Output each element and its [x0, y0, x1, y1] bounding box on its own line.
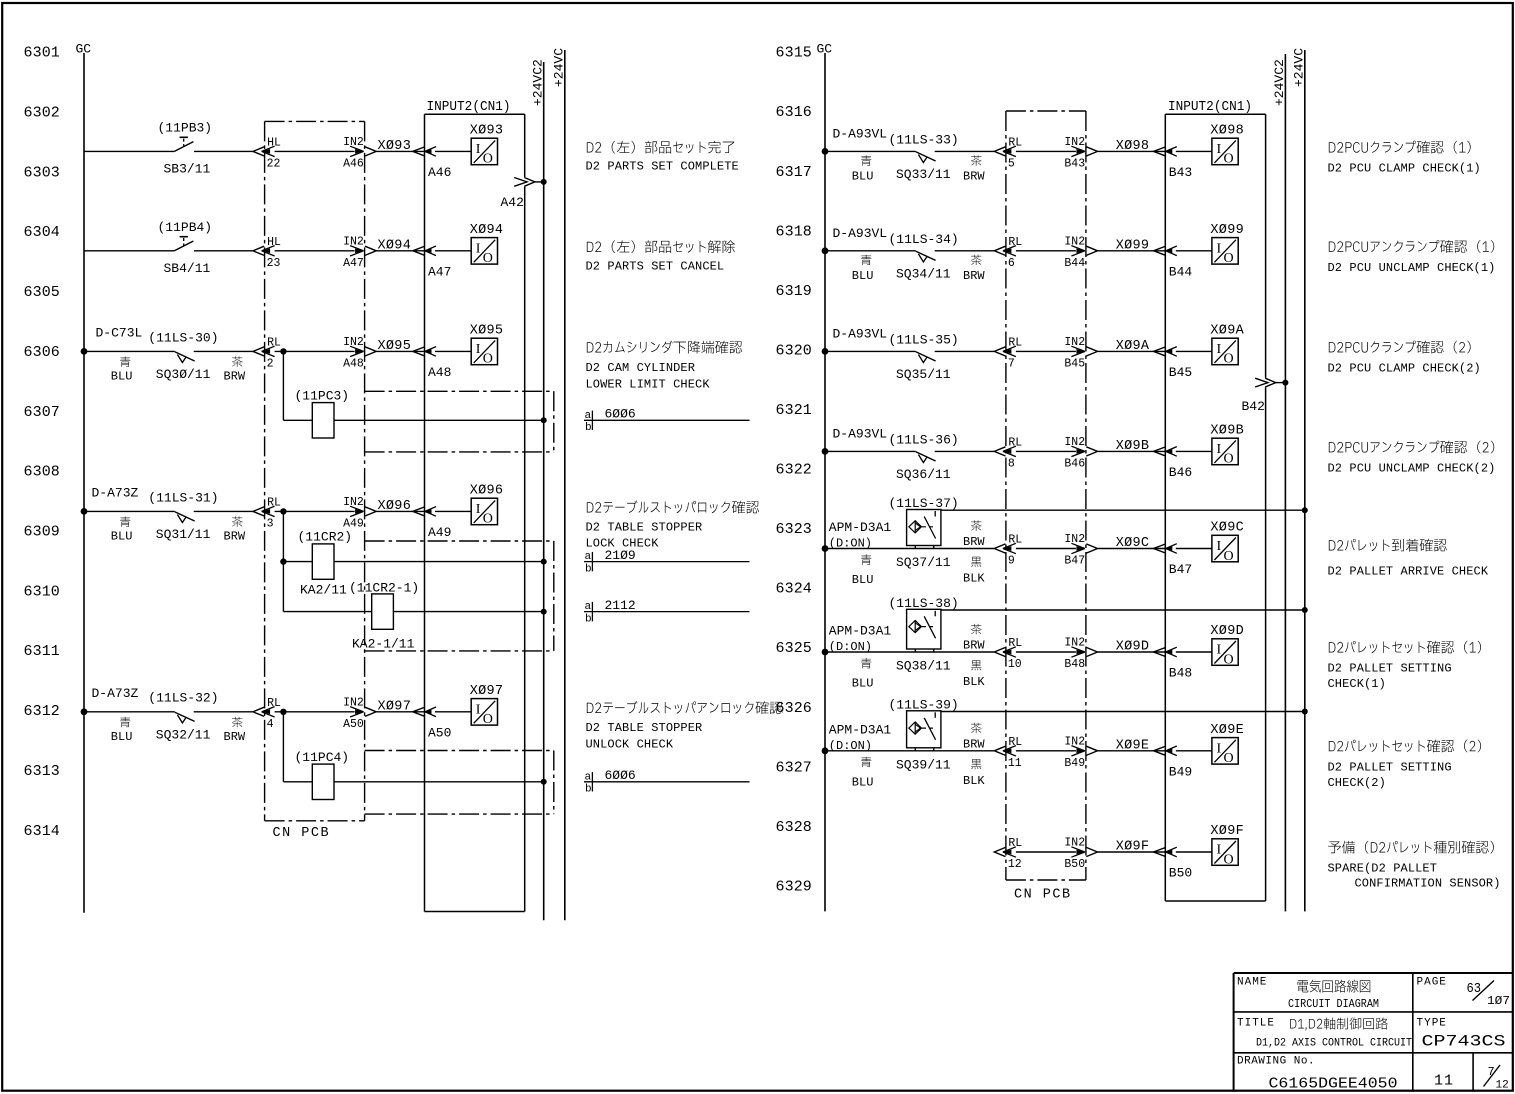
- svg-text:6314: 6314: [24, 823, 60, 840]
- svg-text:B49: B49: [1064, 757, 1085, 770]
- svg-text:11: 11: [1008, 757, 1022, 770]
- svg-text:O: O: [1224, 751, 1234, 766]
- svg-text:6304: 6304: [24, 224, 60, 241]
- svg-text:BLU: BLU: [111, 730, 133, 744]
- svg-text:6308: 6308: [24, 464, 60, 481]
- svg-text:(D:ON): (D:ON): [829, 537, 872, 551]
- svg-text:A46: A46: [343, 157, 364, 170]
- svg-text:BLU: BLU: [111, 530, 133, 544]
- svg-text:B47: B47: [1064, 555, 1085, 568]
- svg-text:6320: 6320: [776, 342, 812, 359]
- svg-text:b: b: [585, 613, 592, 625]
- svg-text:a: a: [585, 551, 592, 563]
- svg-text:I: I: [1217, 539, 1222, 554]
- svg-text:6327: 6327: [776, 759, 812, 776]
- svg-text:D2 PCU CLAMP CHECK(1): D2 PCU CLAMP CHECK(1): [1328, 162, 1481, 176]
- svg-text:XØ94: XØ94: [470, 223, 504, 238]
- svg-text:XØ93: XØ93: [378, 139, 412, 154]
- svg-text:XØ95: XØ95: [378, 339, 412, 354]
- svg-text:6307: 6307: [24, 404, 60, 421]
- svg-text:6313: 6313: [24, 763, 60, 780]
- svg-text:TITLE: TITLE: [1237, 1018, 1275, 1030]
- svg-text:6306: 6306: [24, 344, 60, 361]
- svg-text:BLU: BLU: [852, 170, 874, 184]
- svg-text:D-A93VL: D-A93VL: [833, 426, 888, 441]
- svg-text:(11PB4): (11PB4): [158, 220, 213, 235]
- svg-text:A47: A47: [428, 264, 451, 279]
- svg-text:I: I: [1217, 643, 1222, 658]
- svg-text:a: a: [585, 601, 592, 613]
- svg-text:XØ96: XØ96: [470, 483, 504, 498]
- svg-text:B44: B44: [1064, 257, 1085, 270]
- svg-text:XØ94: XØ94: [378, 239, 412, 254]
- svg-text:XØ9E: XØ9E: [1116, 739, 1150, 754]
- svg-text:a: a: [585, 771, 592, 783]
- svg-text:LOCK CHECK: LOCK CHECK: [586, 537, 660, 551]
- svg-text:12: 12: [1496, 1080, 1509, 1092]
- svg-text:XØ9A: XØ9A: [1210, 323, 1244, 338]
- svg-text:CN PCB: CN PCB: [273, 826, 331, 841]
- svg-text:SPARE(D2 PALLET: SPARE(D2 PALLET: [1328, 862, 1438, 876]
- svg-text:2112: 2112: [605, 598, 636, 613]
- svg-text:XØ97: XØ97: [378, 700, 412, 715]
- svg-text:BRW: BRW: [963, 639, 985, 653]
- svg-text:(11PC3): (11PC3): [295, 389, 350, 404]
- svg-text:D-A93VL: D-A93VL: [833, 126, 888, 141]
- svg-text:D2 TABLE STOPPER: D2 TABLE STOPPER: [586, 521, 703, 535]
- svg-text:O: O: [483, 352, 493, 367]
- svg-text:BRW: BRW: [224, 730, 246, 744]
- svg-text:(11LS-34): (11LS-34): [889, 232, 959, 247]
- svg-text:HL: HL: [267, 236, 281, 249]
- svg-text:B42: B42: [1242, 399, 1265, 414]
- svg-text:11: 11: [1434, 1073, 1454, 1090]
- svg-text:10: 10: [1008, 658, 1022, 671]
- svg-text:D2 PALLET SETTING: D2 PALLET SETTING: [1328, 662, 1452, 676]
- svg-text:a: a: [585, 410, 592, 422]
- svg-text:APM-D3A1: APM-D3A1: [829, 624, 892, 639]
- svg-text:A48: A48: [343, 357, 364, 370]
- svg-text:XØ9D: XØ9D: [1210, 624, 1244, 639]
- svg-text:6302: 6302: [24, 105, 60, 122]
- svg-text:(11PC4): (11PC4): [295, 750, 350, 765]
- svg-text:6ØØ6: 6ØØ6: [605, 407, 636, 422]
- svg-text:I: I: [1217, 342, 1222, 357]
- svg-text:(11LS-35): (11LS-35): [889, 332, 959, 347]
- svg-text:XØ98: XØ98: [1210, 123, 1244, 138]
- svg-text:D2 PALLET ARRIVE CHECK: D2 PALLET ARRIVE CHECK: [1328, 565, 1489, 579]
- svg-text:+24VC2: +24VC2: [1272, 59, 1287, 106]
- svg-text:O: O: [483, 251, 493, 266]
- svg-text:6316: 6316: [776, 104, 812, 121]
- svg-text:O: O: [483, 512, 493, 527]
- svg-text:SQ38/11: SQ38/11: [896, 659, 951, 674]
- svg-text:IN2: IN2: [1064, 136, 1085, 149]
- svg-text:2: 2: [267, 357, 274, 370]
- svg-text:O: O: [483, 712, 493, 727]
- svg-text:B48: B48: [1169, 666, 1192, 681]
- svg-text:6325: 6325: [776, 640, 812, 657]
- svg-text:BRW: BRW: [963, 737, 985, 751]
- svg-text:4: 4: [267, 718, 274, 731]
- svg-text:B48: B48: [1064, 658, 1085, 671]
- svg-text:A47: A47: [343, 257, 364, 270]
- svg-text:6311: 6311: [24, 643, 60, 660]
- svg-text:IN2: IN2: [1064, 735, 1085, 748]
- svg-text:6329: 6329: [776, 878, 812, 895]
- svg-text:XØ99: XØ99: [1210, 223, 1244, 238]
- svg-text:BLK: BLK: [963, 774, 985, 788]
- svg-text:6322: 6322: [776, 462, 812, 479]
- svg-text:XØ97: XØ97: [470, 684, 504, 699]
- svg-text:BRW: BRW: [224, 370, 246, 384]
- svg-text:6317: 6317: [776, 164, 812, 181]
- svg-text:XØ9F: XØ9F: [1210, 824, 1244, 839]
- svg-text:CONFIRMATION SENSOR): CONFIRMATION SENSOR): [1355, 877, 1501, 891]
- svg-text:XØ98: XØ98: [1116, 139, 1150, 154]
- svg-text:6318: 6318: [776, 223, 812, 240]
- svg-text:O: O: [1224, 352, 1234, 367]
- svg-text:XØ9E: XØ9E: [1210, 723, 1244, 738]
- svg-text:6315: 6315: [776, 45, 812, 62]
- svg-text:IN2: IN2: [1064, 837, 1085, 850]
- svg-text:D2 PARTS SET COMPLETE: D2 PARTS SET COMPLETE: [586, 160, 739, 174]
- svg-text:B43: B43: [1064, 157, 1085, 170]
- svg-text:I: I: [476, 342, 481, 357]
- svg-text:B44: B44: [1169, 264, 1193, 279]
- svg-text:BLU: BLU: [852, 677, 874, 691]
- svg-text:6328: 6328: [776, 819, 812, 836]
- svg-text:D-A73Z: D-A73Z: [92, 486, 139, 501]
- svg-text:CP743CS: CP743CS: [1422, 1033, 1506, 1051]
- svg-text:RL: RL: [1008, 837, 1022, 850]
- svg-text:O: O: [483, 152, 493, 167]
- svg-text:RL: RL: [267, 496, 281, 509]
- svg-text:BLK: BLK: [963, 572, 985, 586]
- svg-text:IN2: IN2: [343, 336, 364, 349]
- svg-text:I: I: [1217, 442, 1222, 457]
- svg-text:(11CR2): (11CR2): [298, 530, 353, 545]
- svg-text:RL: RL: [267, 336, 281, 349]
- svg-text:I: I: [476, 702, 481, 717]
- svg-text:I: I: [1217, 241, 1222, 256]
- svg-text:XØ9D: XØ9D: [1116, 640, 1150, 655]
- svg-text:XØ99: XØ99: [1116, 239, 1150, 254]
- svg-text:6324: 6324: [776, 581, 812, 598]
- svg-text:INPUT2(CN1): INPUT2(CN1): [427, 100, 511, 115]
- svg-text:B45: B45: [1169, 365, 1192, 380]
- svg-text:6305: 6305: [24, 284, 60, 301]
- svg-text:D2 CAM CYLINDER: D2 CAM CYLINDER: [586, 361, 696, 375]
- svg-text:B45: B45: [1064, 357, 1085, 370]
- svg-text:6303: 6303: [24, 164, 60, 181]
- svg-text:I: I: [1217, 843, 1222, 858]
- svg-text:(11LS-37): (11LS-37): [889, 496, 959, 511]
- svg-text:SQ34/11: SQ34/11: [896, 267, 951, 282]
- svg-text:1Ø7: 1Ø7: [1487, 994, 1510, 1008]
- svg-text:O: O: [1224, 852, 1234, 867]
- svg-text:O: O: [1224, 549, 1234, 564]
- svg-text:XØ9B: XØ9B: [1116, 439, 1150, 454]
- svg-text:BLU: BLU: [852, 775, 874, 789]
- svg-text:UNLOCK CHECK: UNLOCK CHECK: [586, 738, 674, 752]
- svg-text:b: b: [585, 784, 592, 796]
- svg-text:SQ33/11: SQ33/11: [896, 167, 951, 182]
- svg-text:B50: B50: [1169, 866, 1192, 881]
- svg-text:D2 TABLE STOPPER: D2 TABLE STOPPER: [586, 721, 703, 735]
- svg-text:SQ31/11: SQ31/11: [156, 527, 211, 542]
- svg-text:IN2: IN2: [343, 496, 364, 509]
- svg-text:b: b: [585, 563, 592, 575]
- svg-text:A49: A49: [343, 517, 364, 530]
- svg-text:SB3/11: SB3/11: [164, 162, 211, 177]
- svg-text:I: I: [1217, 142, 1222, 157]
- svg-text:6312: 6312: [24, 703, 60, 720]
- svg-text:b: b: [585, 422, 592, 434]
- svg-text:(D:ON): (D:ON): [829, 739, 872, 753]
- svg-text:D2 PARTS SET CANCEL: D2 PARTS SET CANCEL: [586, 260, 725, 274]
- svg-text:PAGE: PAGE: [1417, 977, 1447, 989]
- svg-text:D2 PCU UNCLAMP CHECK(2): D2 PCU UNCLAMP CHECK(2): [1328, 461, 1496, 475]
- svg-text:XØ95: XØ95: [470, 323, 504, 338]
- svg-text:XØ9C: XØ9C: [1116, 536, 1150, 551]
- svg-text:APM-D3A1: APM-D3A1: [829, 722, 892, 737]
- svg-text:B46: B46: [1064, 457, 1085, 470]
- svg-text:8: 8: [1008, 457, 1015, 470]
- svg-text:D-A93VL: D-A93VL: [833, 226, 888, 241]
- svg-text:BLK: BLK: [963, 675, 985, 689]
- svg-text:IN2: IN2: [1064, 336, 1085, 349]
- svg-text:(11LS-31): (11LS-31): [148, 491, 218, 506]
- svg-text:BRW: BRW: [963, 535, 985, 549]
- svg-text:D2 PCU CLAMP CHECK(2): D2 PCU CLAMP CHECK(2): [1328, 361, 1481, 375]
- svg-text:B47: B47: [1169, 562, 1192, 577]
- svg-text:D2 PCU UNCLAMP CHECK(1): D2 PCU UNCLAMP CHECK(1): [1328, 261, 1496, 275]
- svg-text:B43: B43: [1169, 165, 1192, 180]
- svg-text:SQ39/11: SQ39/11: [896, 757, 951, 772]
- svg-text:I: I: [1217, 741, 1222, 756]
- svg-text:KA2-1/11: KA2-1/11: [352, 636, 415, 651]
- svg-text:B50: B50: [1064, 858, 1085, 871]
- svg-text:XØ93: XØ93: [470, 123, 504, 138]
- svg-text:BRW: BRW: [224, 530, 246, 544]
- svg-text:3: 3: [267, 517, 274, 530]
- svg-text:6323: 6323: [776, 521, 812, 538]
- svg-text:XØ9F: XØ9F: [1116, 840, 1150, 855]
- svg-text:IN2: IN2: [343, 696, 364, 709]
- svg-text:NAME: NAME: [1237, 977, 1267, 989]
- svg-text:BRW: BRW: [963, 170, 985, 184]
- svg-text:RL: RL: [1008, 534, 1022, 547]
- svg-text:A50: A50: [428, 725, 451, 740]
- svg-text:SQ32/11: SQ32/11: [156, 728, 211, 743]
- svg-text:D-C73L: D-C73L: [96, 326, 143, 341]
- svg-text:7: 7: [1008, 357, 1015, 370]
- svg-text:6309: 6309: [24, 524, 60, 541]
- svg-text:6319: 6319: [776, 283, 812, 300]
- svg-text:(11LS-32): (11LS-32): [148, 691, 218, 706]
- svg-text:DRAWING No.: DRAWING No.: [1237, 1056, 1315, 1068]
- svg-text:(11LS-33): (11LS-33): [889, 132, 959, 147]
- svg-text:B49: B49: [1169, 764, 1192, 779]
- svg-text:HL: HL: [267, 136, 281, 149]
- svg-text:(11CR2-1): (11CR2-1): [349, 580, 419, 595]
- svg-text:SQ36/11: SQ36/11: [896, 467, 951, 482]
- svg-text:RL: RL: [1008, 736, 1022, 749]
- svg-text:12: 12: [1008, 858, 1022, 871]
- svg-text:9: 9: [1008, 555, 1015, 568]
- svg-text:+24VC2: +24VC2: [531, 59, 546, 106]
- svg-text:B46: B46: [1169, 465, 1192, 480]
- svg-text:BRW: BRW: [963, 269, 985, 283]
- svg-text:O: O: [1224, 251, 1234, 266]
- svg-text:6321: 6321: [776, 402, 812, 419]
- svg-text:(11PB3): (11PB3): [158, 121, 213, 136]
- svg-text:6301: 6301: [24, 45, 60, 62]
- svg-text:A48: A48: [428, 365, 451, 380]
- svg-text:BLU: BLU: [852, 269, 874, 283]
- svg-text:D2 PALLET SETTING: D2 PALLET SETTING: [1328, 760, 1452, 774]
- svg-text:BLU: BLU: [852, 573, 874, 587]
- svg-text:A49: A49: [428, 525, 451, 540]
- svg-text:(D:ON): (D:ON): [829, 640, 872, 654]
- svg-text:+24VC: +24VC: [552, 48, 567, 87]
- svg-text:SQ3Ø/11: SQ3Ø/11: [156, 367, 211, 382]
- svg-text:A42: A42: [501, 195, 524, 210]
- svg-text:IN2: IN2: [1064, 533, 1085, 546]
- svg-text:I: I: [476, 142, 481, 157]
- svg-text:D-A73Z: D-A73Z: [92, 686, 139, 701]
- svg-text:C6165DGEE4050: C6165DGEE4050: [1269, 1076, 1398, 1093]
- svg-text:+24VC: +24VC: [1292, 48, 1307, 87]
- svg-text:IN2: IN2: [1064, 235, 1085, 248]
- svg-text:IN2: IN2: [1064, 637, 1085, 650]
- svg-text:O: O: [1224, 652, 1234, 667]
- svg-text:TYPE: TYPE: [1417, 1018, 1447, 1030]
- svg-text:IN2: IN2: [343, 136, 364, 149]
- svg-text:O: O: [1224, 452, 1234, 467]
- svg-text:D1,D2 AXIS CONTROL CIRCUIT: D1,D2 AXIS CONTROL CIRCUIT: [1256, 1038, 1412, 1050]
- svg-text:(11LS-36): (11LS-36): [889, 432, 959, 447]
- svg-text:XØ9C: XØ9C: [1210, 521, 1244, 536]
- svg-text:INPUT2(CN1): INPUT2(CN1): [1168, 100, 1252, 115]
- svg-text:I: I: [476, 241, 481, 256]
- svg-text:22: 22: [267, 157, 281, 170]
- svg-text:RL: RL: [1008, 136, 1022, 149]
- svg-text:CHECK(2): CHECK(2): [1328, 776, 1386, 790]
- svg-text:5: 5: [1008, 157, 1015, 170]
- svg-text:6ØØ6: 6ØØ6: [605, 768, 636, 783]
- svg-text:I: I: [476, 502, 481, 517]
- svg-text:XØ96: XØ96: [378, 499, 412, 514]
- svg-text:D-A93VL: D-A93VL: [833, 326, 888, 341]
- svg-text:RL: RL: [1008, 436, 1022, 449]
- svg-text:BLU: BLU: [111, 370, 133, 384]
- svg-text:SQ35/11: SQ35/11: [896, 367, 951, 382]
- svg-text:RL: RL: [267, 697, 281, 710]
- svg-text:XØ9B: XØ9B: [1210, 423, 1244, 438]
- svg-text:RL: RL: [1008, 236, 1022, 249]
- svg-text:XØ9A: XØ9A: [1116, 339, 1150, 354]
- svg-text:CIRCUIT DIAGRAM: CIRCUIT DIAGRAM: [1288, 997, 1379, 1011]
- svg-text:KA2/11: KA2/11: [300, 582, 347, 597]
- svg-text:CHECK(1): CHECK(1): [1328, 677, 1386, 691]
- svg-text:SQ37/11: SQ37/11: [896, 555, 951, 570]
- svg-text:RL: RL: [1008, 637, 1022, 650]
- svg-text:(11LS-30): (11LS-30): [148, 330, 218, 345]
- svg-text:IN2: IN2: [1064, 436, 1085, 449]
- svg-text:A46: A46: [428, 165, 451, 180]
- svg-text:O: O: [1224, 152, 1234, 167]
- svg-text:(11LS-39): (11LS-39): [889, 698, 959, 713]
- svg-text:IN2: IN2: [343, 235, 364, 248]
- svg-text:6310: 6310: [24, 583, 60, 600]
- svg-text:APM-D3A1: APM-D3A1: [829, 520, 892, 535]
- svg-text:(11LS-38): (11LS-38): [889, 596, 959, 611]
- svg-text:RL: RL: [1008, 336, 1022, 349]
- svg-text:CN PCB: CN PCB: [1014, 888, 1072, 903]
- svg-text:LOWER LIMIT CHECK: LOWER LIMIT CHECK: [586, 378, 711, 392]
- svg-text:23: 23: [267, 257, 281, 270]
- svg-text:6: 6: [1008, 257, 1015, 270]
- svg-text:SB4/11: SB4/11: [164, 261, 211, 276]
- svg-text:A50: A50: [343, 718, 364, 731]
